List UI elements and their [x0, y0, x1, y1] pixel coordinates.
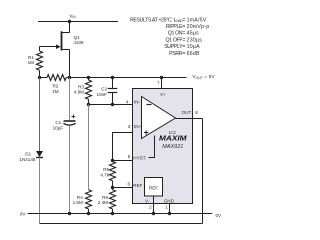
svg-text:20mVp-p: 20mVp-p — [187, 24, 210, 30]
svg-text:C1: C1 — [55, 120, 61, 125]
wire Vout rail — [70, 77, 187, 79]
svg-text:C2: C2 — [101, 87, 107, 92]
svg-text:4.7k: 4.7k — [100, 172, 109, 177]
pin 8 label — [195, 110, 198, 115]
wire out internal — [176, 118, 193, 120]
label MAX921 — [162, 144, 183, 150]
node gnd C1 — [68, 212, 71, 215]
node R1 R2 D1 junction — [38, 76, 41, 79]
svg-text:=: = — [182, 24, 185, 30]
svg-text:=: = — [182, 31, 185, 37]
svg-text:2.4M: 2.4M — [98, 200, 108, 205]
svg-text:66dB: 66dB — [187, 51, 200, 57]
label GND — [164, 198, 175, 203]
svg-text:D1: D1 — [25, 152, 31, 157]
svg-text:R5: R5 — [103, 167, 109, 172]
pin 4 label — [126, 100, 141, 105]
svg-text:7: 7 — [157, 80, 160, 85]
wire out pin8 — [193, 118, 203, 120]
svg-text:1M: 1M — [52, 89, 59, 94]
resistor R2 1M — [40, 75, 70, 94]
results text block — [130, 17, 209, 57]
node IN- junction C2 — [111, 103, 114, 106]
diode D1 1N4148 — [19, 78, 43, 224]
node gnd pin1 — [168, 212, 171, 215]
node gnd pin2 — [152, 212, 155, 215]
svg-text:=: = — [182, 37, 185, 43]
wire pin3 IN+ — [113, 133, 143, 161]
resistor R6 2.4M — [98, 188, 116, 214]
svg-text:PSRR: PSRR — [169, 51, 183, 57]
svg-text:8: 8 — [195, 110, 198, 115]
label 0V right — [216, 213, 223, 218]
svg-text:V-: V- — [145, 198, 150, 203]
svg-text:1mA/5V: 1mA/5V — [187, 17, 207, 23]
svg-text:10nF: 10nF — [97, 92, 108, 97]
logo MAXIM — [159, 134, 188, 143]
node Vin drain junction — [68, 20, 71, 23]
wire feedback bottom — [40, 223, 203, 225]
wire pin6 REF — [113, 187, 133, 189]
resistor R4 1.5M — [73, 105, 92, 214]
svg-text:230µs: 230µs — [187, 37, 203, 43]
wire hyst internal — [149, 136, 155, 158]
node source Vout junction — [68, 76, 71, 79]
wire pin 2 — [153, 204, 155, 214]
label IC1 — [169, 130, 177, 135]
svg-text:R3: R3 — [78, 84, 84, 89]
op-amp IC1 MAX921 body — [133, 89, 193, 204]
label 0V left — [20, 211, 27, 216]
node B ref junction — [111, 186, 114, 189]
resistor R1 1M — [28, 47, 43, 78]
label OUT — [182, 110, 192, 115]
wire ref box stub — [153, 196, 155, 204]
svg-text:SUPPLY: SUPPLY — [164, 44, 183, 50]
pin 3 label — [128, 124, 142, 129]
svg-text:1N4148: 1N4148 — [19, 157, 36, 162]
svg-text:MAX921: MAX921 — [162, 144, 183, 150]
svg-text:MAXIM: MAXIM — [159, 134, 188, 143]
svg-text:0V: 0V — [216, 213, 223, 218]
pin 7 V+ — [160, 76, 163, 79]
svg-text:4.8M: 4.8M — [74, 90, 84, 95]
svg-text:0V: 0V — [20, 211, 27, 216]
svg-text:45µs: 45µs — [187, 31, 200, 37]
svg-text:J109: J109 — [74, 40, 84, 45]
svg-text:OUT: OUT — [182, 110, 192, 115]
svg-text:5: 5 — [128, 154, 131, 159]
pin 5 label — [128, 154, 146, 161]
transistor Q1 J109 — [40, 22, 84, 78]
reference box REF — [145, 178, 163, 197]
svg-text:10µA: 10µA — [187, 44, 201, 50]
svg-text:3: 3 — [128, 124, 131, 129]
svg-text:V+: V+ — [160, 92, 166, 97]
pin 6 label — [127, 182, 142, 189]
node IN- junction R3 — [87, 103, 90, 106]
label V+ — [160, 92, 166, 97]
svg-text:4: 4 — [126, 100, 129, 105]
svg-text:REF: REF — [133, 183, 142, 188]
svg-text:RESULTS AT +25°C: ILOAD: RESULTS AT +25°C: ILOAD — [130, 17, 183, 23]
capacitor C1 10uF — [53, 78, 76, 214]
svg-text:VIN: VIN — [69, 13, 76, 19]
node gnd R6 — [111, 212, 114, 215]
svg-text:1.5M: 1.5M — [73, 200, 83, 205]
label Vout = 5V — [192, 74, 215, 80]
resistor R5 4.7k — [100, 162, 115, 188]
minus input mark — [147, 104, 152, 106]
svg-text:HYST: HYST — [133, 156, 145, 161]
wire pin 1 — [169, 204, 171, 214]
svg-text:=: = — [182, 51, 185, 57]
label Vin — [69, 13, 76, 19]
svg-text:10µF: 10µF — [53, 126, 64, 131]
svg-text:Q1 ON: Q1 ON — [168, 31, 183, 37]
svg-text:REF: REF — [149, 186, 158, 191]
svg-text:RIPPLE: RIPPLE — [166, 24, 183, 30]
resistor R3 4.8M — [74, 76, 92, 105]
op-amp comparator triangle — [142, 97, 176, 139]
svg-text:1M: 1M — [28, 60, 35, 65]
wire Vin rail — [38, 21, 118, 23]
node gnd R4 — [87, 212, 90, 215]
svg-text:IN-: IN- — [134, 100, 141, 105]
svg-text:2: 2 — [149, 205, 152, 210]
svg-text:GND: GND — [164, 198, 175, 203]
node A hyst junction — [111, 159, 114, 162]
svg-text:VOUT = 5V: VOUT = 5V — [192, 74, 215, 80]
svg-text:Q1 OFF: Q1 OFF — [166, 37, 183, 43]
wire out feedback vertical — [202, 119, 204, 224]
label V- — [145, 198, 150, 203]
wire ground rail — [28, 213, 213, 215]
svg-text:6: 6 — [127, 182, 130, 187]
wire pin5 HYST — [113, 160, 133, 162]
svg-text:=: = — [182, 17, 185, 23]
svg-text:IN+: IN+ — [134, 124, 142, 129]
svg-text:=: = — [182, 44, 185, 50]
plus input mark — [144, 132, 148, 134]
svg-text:1: 1 — [165, 205, 168, 210]
capacitor C2 10nF — [97, 76, 118, 105]
wire pin4 IN- — [89, 104, 143, 106]
